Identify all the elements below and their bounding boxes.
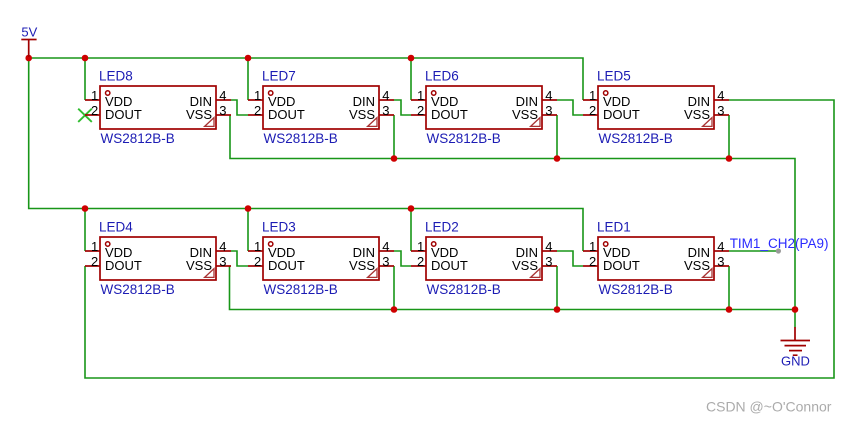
svg-text:3: 3 bbox=[717, 254, 724, 269]
svg-text:1: 1 bbox=[91, 239, 98, 254]
LED1 pin-1 indicator circle bbox=[604, 242, 608, 246]
LED8 pin 2 DOUT stub bbox=[85, 114, 100, 116]
svg-text:VSS: VSS bbox=[684, 258, 710, 273]
LED7 pin 4 DIN stub bbox=[379, 99, 394, 101]
svg-text:WS2812B-B: WS2812B-B bbox=[599, 131, 673, 146]
svg-text:3: 3 bbox=[717, 103, 724, 118]
junction VSS rail at LED6 VSS bbox=[554, 155, 561, 162]
svg-text:LED7: LED7 bbox=[262, 69, 296, 84]
LED5 pin 4 DIN stub bbox=[714, 99, 729, 101]
svg-text:DOUT: DOUT bbox=[603, 258, 640, 273]
LED6 pin 2 DOUT stub bbox=[411, 114, 426, 116]
svg-text:3: 3 bbox=[219, 254, 226, 269]
LED6 pin 3 VSS stub bbox=[542, 114, 557, 116]
LED3 polarity triangle mark bbox=[368, 269, 377, 278]
junction 5V rail at LED6 VDD bbox=[408, 55, 415, 62]
wire 5V top rail to LED5 VDD bbox=[29, 58, 583, 100]
LED6 body rectangle bbox=[426, 86, 542, 129]
WS2812B-B LED7 bbox=[248, 69, 394, 147]
svg-text:1: 1 bbox=[254, 88, 261, 103]
svg-text:3: 3 bbox=[219, 103, 226, 118]
svg-text:1: 1 bbox=[254, 239, 261, 254]
svg-text:4: 4 bbox=[717, 88, 724, 103]
LED7 pin 2 DOUT stub bbox=[248, 114, 263, 116]
junction VSS rail at LED3 VSS bbox=[391, 306, 398, 313]
svg-text:LED3: LED3 bbox=[262, 220, 296, 235]
wire LED3 DOUT to LED4 DIN bbox=[231, 251, 248, 266]
svg-text:4: 4 bbox=[382, 239, 389, 254]
junction 5V rail at LED2 VDD bbox=[408, 205, 415, 212]
svg-text:2: 2 bbox=[589, 103, 596, 118]
LED3 pin 2 DOUT stub bbox=[248, 265, 263, 267]
svg-text:3: 3 bbox=[382, 103, 389, 118]
wire LED4 DOUT around bottom to LED5 DIN bbox=[85, 100, 834, 378]
wire LED8 VSS to top VSS rail and right drop bbox=[230, 115, 795, 310]
LED8 body rectangle bbox=[100, 86, 216, 129]
net port TIM1_CH2(PA9) bbox=[730, 236, 829, 254]
LED7 pin 1 VDD stub bbox=[248, 99, 263, 101]
wire 5V left drop and bottom rail to LED1 VDD bbox=[29, 58, 583, 251]
LED3 pin 1 VDD stub bbox=[248, 250, 263, 252]
svg-text:1: 1 bbox=[417, 88, 424, 103]
wire 5V rail to LED3 VDD bbox=[247, 209, 249, 252]
junction 5V rail at LED7 VDD bbox=[245, 55, 252, 62]
LED2 pin-1 indicator circle bbox=[432, 242, 436, 246]
junction 5V rail at left drop bbox=[25, 55, 32, 62]
svg-text:DOUT: DOUT bbox=[431, 258, 468, 273]
svg-text:1: 1 bbox=[417, 239, 424, 254]
junction 5V rail at LED3 VDD bbox=[245, 205, 252, 212]
svg-text:TIM1_CH2(PA9): TIM1_CH2(PA9) bbox=[730, 236, 829, 251]
svg-text:LED6: LED6 bbox=[425, 69, 459, 84]
wire 5V rail to LED4 VDD bbox=[84, 209, 86, 252]
svg-text:VSS: VSS bbox=[349, 258, 375, 273]
svg-text:LED5: LED5 bbox=[597, 69, 631, 84]
LED7 pin 3 VSS stub bbox=[379, 114, 394, 116]
svg-text:CSDN @~O'Connor: CSDN @~O'Connor bbox=[706, 399, 832, 415]
LED2 pin 1 VDD stub bbox=[411, 250, 426, 252]
svg-text:2: 2 bbox=[417, 254, 424, 269]
svg-text:LED8: LED8 bbox=[99, 69, 133, 84]
svg-text:VSS: VSS bbox=[512, 107, 538, 122]
svg-text:VSS: VSS bbox=[684, 107, 710, 122]
LED5 body rectangle bbox=[598, 86, 714, 129]
svg-text:WS2812B-B: WS2812B-B bbox=[427, 282, 501, 297]
WS2812B-B LED6 bbox=[411, 69, 557, 147]
svg-text:1: 1 bbox=[91, 88, 98, 103]
svg-text:4: 4 bbox=[382, 88, 389, 103]
svg-text:WS2812B-B: WS2812B-B bbox=[599, 282, 673, 297]
svg-text:DOUT: DOUT bbox=[105, 107, 142, 122]
junction 5V rail at LED8 VDD bbox=[82, 55, 89, 62]
LED8 polarity triangle mark bbox=[205, 118, 214, 127]
svg-text:LED1: LED1 bbox=[597, 220, 631, 235]
LED3 pin 4 DIN stub bbox=[379, 250, 394, 252]
svg-text:DOUT: DOUT bbox=[431, 107, 468, 122]
svg-text:3: 3 bbox=[545, 254, 552, 269]
svg-text:VSS: VSS bbox=[186, 258, 212, 273]
svg-text:LED2: LED2 bbox=[425, 220, 459, 235]
wire LED1 DOUT to LED2 DIN bbox=[557, 251, 583, 266]
svg-text:WS2812B-B: WS2812B-B bbox=[264, 131, 338, 146]
LED5 pin 3 VSS stub bbox=[714, 114, 729, 116]
svg-text:4: 4 bbox=[219, 239, 226, 254]
LED4 pin-1 indicator circle bbox=[106, 242, 110, 246]
wire LED2 DOUT to LED3 DIN bbox=[394, 251, 411, 266]
svg-text:DOUT: DOUT bbox=[268, 258, 305, 273]
wire LED1 DIN to TIM1_CH2 net port bbox=[729, 250, 778, 252]
wire VSS rail to GND symbol bbox=[794, 310, 796, 328]
LED2 polarity triangle mark bbox=[531, 269, 540, 278]
LED1 pin 3 VSS stub bbox=[714, 265, 729, 267]
svg-text:4: 4 bbox=[717, 239, 724, 254]
junction VSS rail at LED5 VSS bbox=[726, 155, 733, 162]
svg-text:3: 3 bbox=[545, 103, 552, 118]
svg-text:5V: 5V bbox=[21, 25, 37, 40]
wire LED7 VSS drop bbox=[393, 115, 395, 159]
wire 5V rail to LED2 VDD bbox=[410, 209, 412, 252]
LED6 pin 1 VDD stub bbox=[411, 99, 426, 101]
LED4 body rectangle bbox=[100, 237, 216, 280]
svg-text:2: 2 bbox=[254, 254, 261, 269]
WS2812B-B LED8 bbox=[85, 69, 231, 147]
WS2812B-B LED1 bbox=[583, 220, 729, 298]
svg-text:DOUT: DOUT bbox=[105, 258, 142, 273]
junction 5V rail at LED4 VDD bbox=[82, 205, 89, 212]
svg-text:3: 3 bbox=[382, 254, 389, 269]
svg-text:2: 2 bbox=[91, 254, 98, 269]
svg-text:4: 4 bbox=[545, 239, 552, 254]
LED8 pin 4 DIN stub bbox=[216, 99, 231, 101]
LED3 body rectangle bbox=[263, 237, 379, 280]
wire LED4 VSS to bottom VSS rail bbox=[230, 266, 796, 310]
LED3 pin-1 indicator circle bbox=[269, 242, 273, 246]
LED5 pin 1 VDD stub bbox=[583, 99, 598, 101]
WS2812B-B LED4 bbox=[85, 220, 231, 298]
junction VSS rail at LED1 VSS bbox=[726, 306, 733, 313]
LED5 pin-1 indicator circle bbox=[604, 91, 608, 95]
LED3 pin 3 VSS stub bbox=[379, 265, 394, 267]
WS2812B-B LED2 bbox=[411, 220, 557, 298]
wire 5V rail to LED8 VDD bbox=[84, 58, 86, 100]
LED6 polarity triangle mark bbox=[531, 118, 540, 127]
svg-text:2: 2 bbox=[254, 103, 261, 118]
svg-text:WS2812B-B: WS2812B-B bbox=[427, 131, 501, 146]
svg-text:WS2812B-B: WS2812B-B bbox=[264, 282, 338, 297]
LED2 pin 4 DIN stub bbox=[542, 250, 557, 252]
wire LED6 DOUT to LED7 DIN bbox=[394, 100, 411, 115]
LED8 pin 3 VSS stub bbox=[216, 114, 231, 116]
svg-text:2: 2 bbox=[91, 103, 98, 118]
LED5 pin 2 DOUT stub bbox=[583, 114, 598, 116]
svg-text:WS2812B-B: WS2812B-B bbox=[101, 282, 175, 297]
wire LED7 DOUT to LED8 DIN bbox=[231, 100, 248, 115]
svg-text:VSS: VSS bbox=[349, 107, 375, 122]
LED1 body rectangle bbox=[598, 237, 714, 280]
wire LED3 VSS drop bbox=[393, 266, 395, 310]
svg-text:1: 1 bbox=[589, 88, 596, 103]
svg-text:GND: GND bbox=[781, 353, 810, 368]
WS2812B-B LED5 bbox=[583, 69, 729, 147]
svg-text:4: 4 bbox=[219, 88, 226, 103]
LED8 pin-1 indicator circle bbox=[106, 91, 110, 95]
LED1 pin 1 VDD stub bbox=[583, 250, 598, 252]
wire LED6 VSS drop bbox=[556, 115, 558, 159]
svg-text:DOUT: DOUT bbox=[268, 107, 305, 122]
wire LED5 DOUT to LED6 DIN bbox=[557, 100, 583, 115]
LED7 pin-1 indicator circle bbox=[269, 91, 273, 95]
LED8 pin 1 VDD stub bbox=[85, 99, 100, 101]
svg-text:VSS: VSS bbox=[186, 107, 212, 122]
svg-text:1: 1 bbox=[589, 239, 596, 254]
LED5 polarity triangle mark bbox=[703, 118, 712, 127]
wire 5V rail to LED6 VDD bbox=[410, 58, 412, 100]
junction VSS rail at LED7 VSS bbox=[391, 155, 398, 162]
LED6 pin 4 DIN stub bbox=[542, 99, 557, 101]
LED7 polarity triangle mark bbox=[368, 118, 377, 127]
svg-text:4: 4 bbox=[545, 88, 552, 103]
wire LED5 VSS drop bbox=[728, 115, 730, 159]
svg-text:DOUT: DOUT bbox=[603, 107, 640, 122]
svg-text:LED4: LED4 bbox=[99, 220, 133, 235]
LED4 pin 2 DOUT stub bbox=[85, 265, 100, 267]
junction VSS rail at GND drop bbox=[792, 306, 799, 313]
LED4 pin 3 VSS stub bbox=[216, 265, 231, 267]
LED1 pin 2 DOUT stub bbox=[583, 265, 598, 267]
LED6 pin-1 indicator circle bbox=[432, 91, 436, 95]
LED7 body rectangle bbox=[263, 86, 379, 129]
WS2812B-B LED3 bbox=[248, 220, 394, 298]
ground symbol GND bbox=[781, 327, 811, 368]
LED2 pin 2 DOUT stub bbox=[411, 265, 426, 267]
power symbol 5V bbox=[21, 25, 37, 58]
LED1 polarity triangle mark bbox=[703, 269, 712, 278]
svg-text:WS2812B-B: WS2812B-B bbox=[101, 131, 175, 146]
junction VSS rail at LED2 VSS bbox=[554, 306, 561, 313]
LED2 pin 3 VSS stub bbox=[542, 265, 557, 267]
svg-text:2: 2 bbox=[417, 103, 424, 118]
no-connect flag on LED8 pin 2 bbox=[78, 109, 92, 122]
wire LED1 VSS drop bbox=[728, 266, 730, 310]
LED1 pin 4 DIN stub bbox=[714, 250, 729, 252]
svg-text:2: 2 bbox=[589, 254, 596, 269]
LED4 polarity triangle mark bbox=[205, 269, 214, 278]
wire LED2 VSS drop bbox=[556, 266, 558, 310]
LED2 body rectangle bbox=[426, 237, 542, 280]
LED4 pin 4 DIN stub bbox=[216, 250, 231, 252]
LED4 pin 1 VDD stub bbox=[85, 250, 100, 252]
svg-text:VSS: VSS bbox=[512, 258, 538, 273]
wire 5V rail to LED7 VDD bbox=[247, 58, 249, 100]
